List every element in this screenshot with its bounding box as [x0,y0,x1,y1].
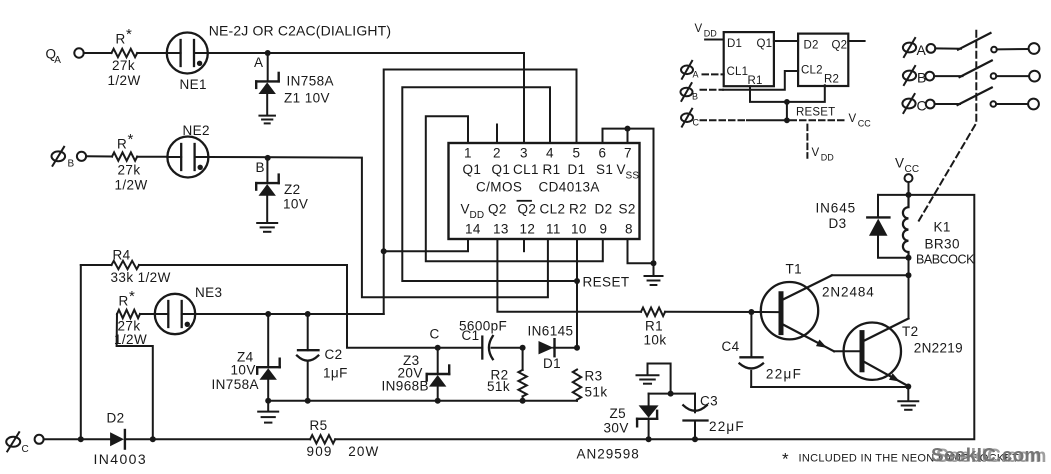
svg-text:C: C [22,444,29,455]
wire dashed to VCC [791,119,847,121]
wire [437,348,439,374]
wire dashed [701,89,724,91]
pin CL2 label [540,202,566,217]
node pin6/7 junction [625,126,631,132]
svg-text:4: 4 [546,146,554,161]
svg-text:R3: R3 [585,369,603,384]
resistor R1 10k [641,308,665,316]
pin 8 label [625,222,633,237]
svg-text:5: 5 [573,146,581,161]
svg-text:33k 1/2W: 33k 1/2W [111,270,171,285]
contact [991,101,997,107]
svg-text:Q2: Q2 [832,40,848,52]
svg-text:C: C [693,118,700,128]
svg-text:9: 9 [600,222,608,237]
ground [258,412,278,423]
svg-text:B: B [692,92,698,102]
wire [878,236,909,258]
node [646,436,652,442]
wire [908,258,910,275]
wire [266,94,268,115]
node QA input label [46,47,62,67]
wire [44,438,111,440]
label NE-2J OR C2AC(DIALIGHT) [209,22,391,38]
pin 10 label [571,222,587,237]
svg-text:CL2: CL2 [540,202,566,217]
label T2 2N2219 [902,324,963,355]
label RESET [583,275,630,290]
label RESET [796,107,835,119]
label VDD [812,147,835,162]
wire R1/R2 tie [750,85,825,102]
pin 1 label [464,146,472,161]
node T2 emitter junction [905,384,911,390]
label CL1 [727,66,749,78]
diode D2 IN4003 [110,430,125,449]
label IN6145 D1 [528,324,574,371]
node VDD junction [381,248,387,254]
wire pin13 Q2 to R1 [497,239,641,312]
wire pin5 D1 to VDD node [384,70,577,315]
node phi-B input label [52,147,75,170]
pin 13 label [493,222,509,237]
label C [430,327,440,342]
svg-text:D2: D2 [107,411,125,426]
svg-text:C4: C4 [722,339,740,354]
svg-text:Z2: Z2 [284,182,301,197]
pin Q2bar label [518,201,537,217]
contact [991,47,997,53]
wire [786,102,788,120]
pin VSS label [617,162,640,182]
wire [208,53,524,143]
pin 7 label [624,146,632,161]
label Q1 [757,38,773,50]
svg-text:CD4013A: CD4013A [539,180,600,195]
svg-text:R2: R2 [569,202,587,217]
label R2 51k [487,368,510,394]
svg-text:C2: C2 [325,347,343,362]
IC U1 CD4013A body [449,143,640,239]
svg-text:V: V [849,113,857,125]
wire [935,47,961,49]
label D1 [727,38,742,50]
svg-text:R: R [116,32,126,47]
node [784,99,790,105]
wire Q2 output [848,40,864,42]
svg-text:1: 1 [464,146,472,161]
svg-text:7: 7 [624,146,632,161]
svg-text:SS: SS [626,171,640,182]
svg-text:51k: 51k [487,379,510,394]
switch blade phi-A [958,33,991,50]
zener Z1 IN758A [256,73,279,94]
svg-text:13: 13 [493,222,509,237]
terminal [926,100,935,109]
label phi-A [903,38,927,58]
node D1 anode junction [520,345,526,351]
svg-text:V: V [812,147,820,159]
svg-text:3: 3 [520,146,528,161]
zener Z4 IN758A 10V [257,359,280,380]
wire [877,195,879,218]
node [78,436,84,442]
svg-text:DD: DD [821,152,834,162]
node [906,192,912,198]
svg-text:D3: D3 [829,216,847,231]
svg-text:CL1: CL1 [513,162,539,177]
svg-text:R: R [119,294,129,309]
capacitor C2 1uF [297,314,319,401]
svg-text:1μF: 1μF [323,366,348,381]
node [305,398,311,404]
wire dashed to VDD [806,125,808,158]
wire pin1 Q1 to pin9 D2 [426,116,603,261]
label B [256,160,265,175]
svg-text:909: 909 [307,444,333,459]
wire [907,387,909,401]
terminal phi-C [35,435,44,444]
resistor R* 27k 1/2W (NE3) [117,310,140,318]
svg-text:BR30: BR30 [925,237,960,252]
svg-text:V: V [695,23,703,35]
pin R1 label [543,162,561,177]
pin S2 label [619,202,636,217]
svg-text:51k: 51k [585,385,608,400]
svg-text:R1: R1 [543,162,561,177]
node Z4 top junction [265,311,271,317]
svg-text:R1: R1 [645,319,663,334]
label NE3 [195,285,222,300]
svg-text:IN6145: IN6145 [528,324,574,339]
label NE1 [180,77,207,92]
label phi-C [902,94,926,114]
wire T1 collector [832,274,909,276]
label phi-B [903,66,926,86]
wire [935,103,960,105]
svg-text:2N2219: 2N2219 [914,340,963,355]
svg-text:30V: 30V [604,421,629,436]
label VCC [895,156,919,176]
capacitor C1 5600pF [482,336,493,359]
svg-text:2: 2 [493,146,501,161]
svg-text:A: A [693,70,699,80]
node T1 base junction [748,309,754,315]
wire [137,156,167,158]
svg-text:V: V [895,156,904,171]
wire VCC rail [335,195,974,439]
pin 9 label [600,222,608,237]
svg-text:R: R [117,137,127,152]
mechanical linkage dashed [918,31,977,223]
node B junction [265,155,271,161]
label VCC [849,113,872,128]
label D2 [804,40,819,52]
svg-text:CC: CC [858,118,871,128]
svg-text:27k: 27k [112,58,135,73]
pin Q1 label [463,162,482,177]
wire pin14 VDD stub [384,239,468,251]
label C4 22uF [722,339,803,381]
label R5 909 20W [307,418,380,459]
svg-text:T2: T2 [902,324,919,339]
wire [437,387,439,401]
node phi-C input label [6,432,29,455]
wire [747,119,787,121]
svg-text:NE2: NE2 [183,123,210,138]
label R4 33k 1/2W [111,248,171,286]
pin 11 label [546,222,561,237]
svg-text:14: 14 [465,222,481,237]
ground [259,116,275,124]
flip-flop U1a box [724,32,774,86]
wire [996,75,1029,77]
pin 2 label [493,146,501,161]
svg-text:IN758A: IN758A [287,74,334,89]
wire pin2 stub [496,125,498,144]
svg-text:10V: 10V [283,197,308,212]
switch blade phi-B [960,61,992,78]
wire [266,196,268,223]
svg-text:RESET: RESET [796,107,835,119]
svg-text:B: B [256,160,265,175]
svg-text:*: * [126,26,132,43]
wire [997,48,1029,50]
node [150,436,156,442]
resistor R5 909 20W [310,435,335,443]
pin D1 label [568,162,586,177]
transistor T2 2N2219 [844,319,909,386]
pin 14 label [465,222,481,237]
pin D2 label [595,202,613,217]
svg-text:RESET: RESET [583,275,630,290]
wire R* left leg [117,314,153,439]
svg-text:NE-2J OR C2AC(DIALIGHT): NE-2J OR C2AC(DIALIGHT) [209,22,391,38]
pin 3 label [520,146,528,161]
wire [140,313,155,315]
svg-text:Q2: Q2 [518,202,537,217]
node C2 top junction [305,311,311,317]
pin 12 label [520,222,536,237]
terminal [925,72,934,81]
wire [648,394,650,406]
wire [908,182,910,195]
label Z4 10V IN758A [212,350,259,393]
label Z5 30V [604,406,629,436]
label T1 2N2484 [786,262,875,300]
svg-text:V: V [617,162,626,177]
label IN645 D3 [816,201,857,232]
svg-text:D1: D1 [543,356,561,371]
wire [671,393,695,395]
svg-text:AN29598: AN29598 [577,447,640,462]
svg-text:IN758A: IN758A [212,377,259,392]
svg-text:D1: D1 [568,162,586,177]
label K1 BR30 BABCOCK [916,220,975,267]
pin 5 label [573,146,581,161]
label Q2 [832,40,848,52]
wire [84,52,112,54]
terminal QA [74,48,83,57]
flip-flop U1b box [798,34,848,86]
label C2 1uF [323,347,348,381]
svg-text:V: V [461,202,470,217]
svg-text:Q2: Q2 [488,202,507,217]
capacitor C4 22uF [740,312,764,387]
pin S1 label [596,162,613,177]
wire [996,103,1028,105]
node A junction [265,50,271,56]
wire dashed [703,73,724,75]
node D1 cathode junction [574,345,580,351]
wire pin12 stub [523,239,525,251]
svg-text:C/MOS: C/MOS [476,180,522,195]
svg-text:C: C [430,327,440,342]
wire [137,52,167,54]
pin 4 label [546,146,554,161]
label CL2 [801,65,823,77]
wire R4 to node C [139,265,438,348]
svg-text:A: A [54,55,61,66]
wire [86,155,112,157]
zener Z5 30V [637,405,659,426]
pin R2 label [569,202,587,217]
node [692,436,698,442]
pin Q1b label [492,162,511,177]
node C junction [435,345,441,351]
wire [81,264,112,266]
wire [267,314,269,367]
label R* 27k 1/2W [115,131,148,193]
label 5600pF C1 [459,319,507,343]
wire [647,364,649,376]
label phi-B [681,83,699,101]
watermark SeekIC.com [931,446,1047,468]
node [906,255,912,261]
svg-text:*: * [782,450,789,469]
label IN758A Z1 10V [284,74,334,106]
wire dashed [701,119,748,121]
wire [267,53,269,81]
wire phiB to CL2 [723,71,798,90]
svg-text:CL1: CL1 [727,66,749,78]
svg-text:8: 8 [625,222,633,237]
wire C4/emitter bottom [751,386,908,388]
inductor K1 relay coil BR30 BABCOCK [903,195,909,258]
svg-text:2N2484: 2N2484 [822,285,875,300]
svg-text:C1: C1 [462,328,480,343]
label phi-C [681,109,700,128]
svg-text:Q1: Q1 [463,162,482,177]
node [784,117,790,123]
label R2 [824,74,839,86]
terminal phi-B [77,152,86,161]
svg-text:S2: S2 [619,202,636,217]
wire [492,347,523,349]
svg-text:A: A [917,42,927,58]
node [520,398,526,404]
svg-text:SeekIC.com: SeekIC.com [931,446,1042,467]
diode D1 IN6145 [539,339,578,356]
resistor R* 27k 1/2W (QA row) [112,49,138,57]
wire [934,75,962,77]
contact [991,73,997,79]
wire [266,158,268,183]
label C3 22uF [700,394,745,434]
wire [878,194,909,196]
wire Z4/C2/Z3/R2/R3 common [268,400,577,402]
node [265,398,271,404]
svg-text:10V: 10V [231,363,256,378]
svg-text:S1: S1 [596,162,613,177]
wire [522,396,524,400]
label phi-A [681,61,699,80]
wire [267,380,269,401]
svg-text:27k: 27k [118,163,141,178]
label R3 51k [585,369,608,400]
wire [649,393,671,395]
transistor T1 2N2484 [761,275,834,351]
svg-text:Z5: Z5 [610,406,627,421]
wire T2 collector [908,275,910,318]
svg-text:CL2: CL2 [801,65,823,77]
wire pin4 R1 to RESET [402,87,577,281]
svg-text:IN645: IN645 [816,201,857,216]
label D2 IN4003 [94,411,148,467]
svg-text:D2: D2 [595,202,613,217]
svg-text:11: 11 [546,222,561,237]
svg-text:12: 12 [520,222,536,237]
neon lamp NE1 [167,33,208,74]
svg-text:K1: K1 [934,220,951,235]
node ground rail junction [651,260,657,266]
svg-text:R4: R4 [113,248,131,263]
terminal [1029,71,1040,82]
svg-text:NE1: NE1 [180,77,207,92]
wire pin10 R2 RESET vertical [576,239,578,348]
resistor R4 33k 1/2W [112,261,140,269]
neon lamp NE3 [155,294,195,334]
svg-text:22μF: 22μF [766,366,802,381]
label R* 27k 1/2W [108,26,141,88]
label C/MOS CD4013A [476,180,600,195]
diode D3 IN645 [867,217,889,235]
wire [125,438,310,440]
zener Z3 IN968B 20V [427,366,450,387]
svg-text:CC: CC [905,164,920,175]
terminal [1028,99,1039,110]
svg-text:BABCOCK: BABCOCK [916,253,975,267]
ground [637,375,659,383]
label VDD [695,23,718,39]
resistor R3 51k [573,370,581,400]
svg-text:Z1 10V: Z1 10V [284,91,330,106]
svg-text:1/2W: 1/2W [108,73,141,88]
wire [665,311,779,313]
resistor R* 27k 1/2W (phiB row) [112,152,137,160]
ground [257,223,277,232]
svg-text:*: * [129,288,135,305]
terminal VCC [905,174,913,182]
svg-text:10: 10 [571,222,587,237]
svg-text:1/2W: 1/2W [114,332,147,347]
wire [648,419,650,440]
svg-text:22μF: 22μF [709,419,745,434]
wire [576,400,578,401]
wire [195,313,384,315]
svg-text:Q1: Q1 [757,38,773,50]
ground [898,401,918,410]
